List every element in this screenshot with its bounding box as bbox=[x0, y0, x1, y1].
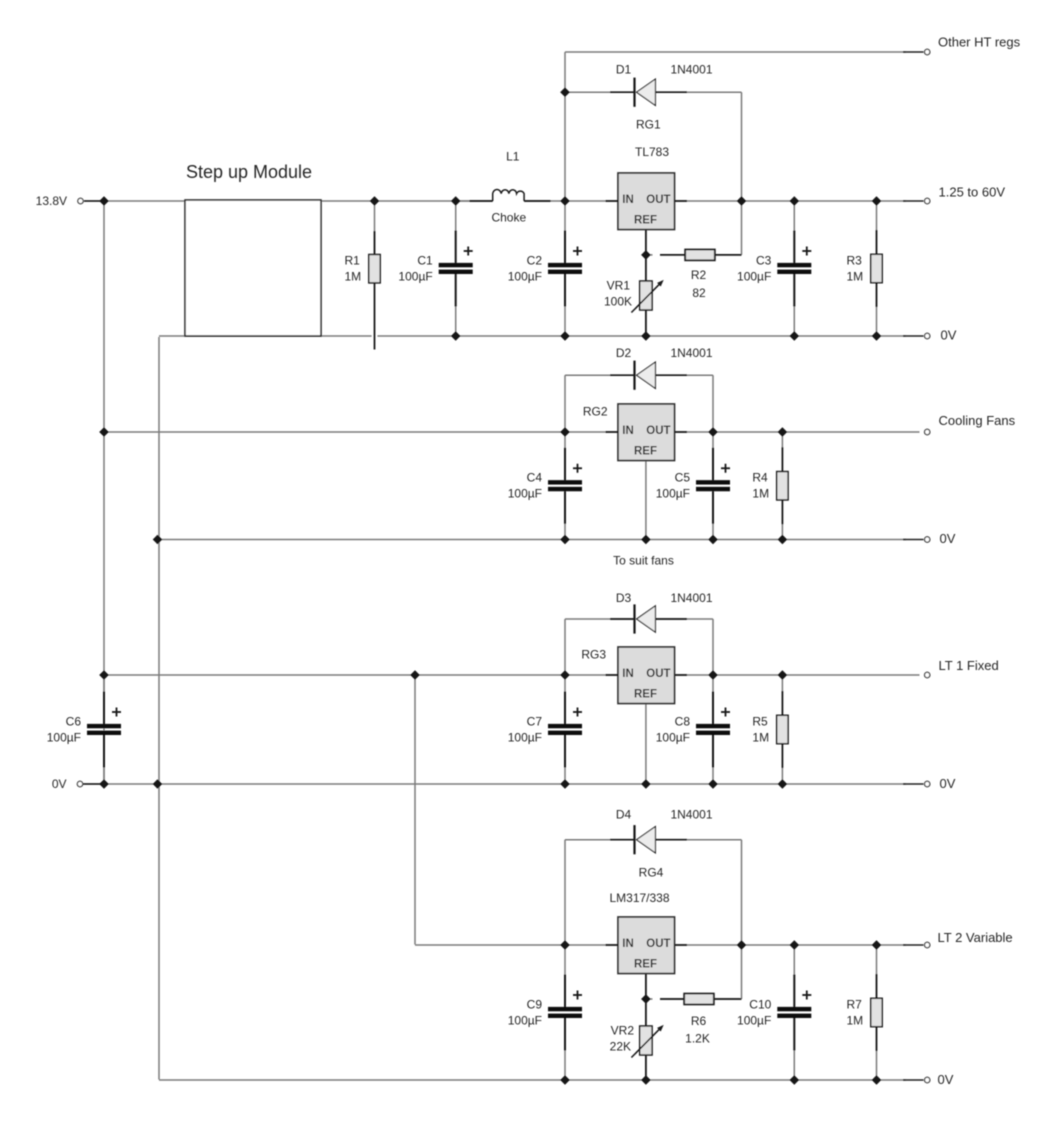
svg-text:1M: 1M bbox=[345, 270, 362, 284]
svg-text:0V: 0V bbox=[938, 1072, 954, 1087]
svg-text:100µF: 100µF bbox=[508, 269, 542, 283]
svg-text:RG3: RG3 bbox=[581, 648, 606, 662]
svg-text:C8: C8 bbox=[675, 714, 691, 728]
svg-text:100µF: 100µF bbox=[508, 487, 542, 501]
svg-text:C10: C10 bbox=[749, 997, 771, 1011]
svg-text:D4: D4 bbox=[616, 808, 632, 822]
svg-text:OUT: OUT bbox=[646, 194, 670, 206]
svg-text:100µF: 100µF bbox=[656, 487, 690, 501]
svg-text:R1: R1 bbox=[345, 254, 361, 268]
svg-text:IN: IN bbox=[622, 668, 634, 680]
svg-text:LT 2 Variable: LT 2 Variable bbox=[938, 930, 1013, 945]
svg-text:1M: 1M bbox=[752, 730, 769, 744]
svg-text:To suit fans: To suit fans bbox=[613, 554, 674, 568]
svg-text:Step up Module: Step up Module bbox=[186, 162, 312, 182]
svg-text:100µF: 100µF bbox=[398, 269, 432, 283]
svg-text:C4: C4 bbox=[527, 471, 543, 485]
svg-text:1N4001: 1N4001 bbox=[670, 808, 712, 822]
svg-text:1M: 1M bbox=[847, 1013, 864, 1027]
svg-text:0V: 0V bbox=[941, 328, 957, 343]
svg-text:100K: 100K bbox=[604, 295, 632, 309]
svg-text:82: 82 bbox=[692, 286, 706, 300]
svg-text:Other HT regs: Other HT regs bbox=[938, 35, 1021, 50]
svg-text:1N4001: 1N4001 bbox=[670, 591, 712, 605]
svg-text:22K: 22K bbox=[610, 1040, 631, 1054]
svg-text:0V: 0V bbox=[52, 777, 67, 791]
svg-text:R5: R5 bbox=[752, 714, 768, 728]
svg-text:IN: IN bbox=[622, 194, 634, 206]
svg-text:C1: C1 bbox=[417, 253, 433, 267]
svg-text:LT 1 Fixed: LT 1 Fixed bbox=[939, 658, 999, 673]
svg-text:IN: IN bbox=[622, 425, 634, 437]
svg-text:100µF: 100µF bbox=[737, 1013, 771, 1027]
svg-text:0V: 0V bbox=[940, 776, 956, 791]
svg-text:0V: 0V bbox=[940, 531, 956, 546]
svg-text:C3: C3 bbox=[756, 253, 772, 267]
svg-text:VR1: VR1 bbox=[607, 279, 631, 293]
svg-text:1.2K: 1.2K bbox=[685, 1031, 710, 1045]
svg-text:1.25 to 60V: 1.25 to 60V bbox=[939, 185, 1006, 200]
svg-text:IN: IN bbox=[622, 938, 634, 950]
svg-text:C5: C5 bbox=[675, 471, 691, 485]
svg-text:LM317/338: LM317/338 bbox=[609, 891, 669, 905]
svg-text:RG1: RG1 bbox=[636, 118, 661, 132]
svg-text:TL783: TL783 bbox=[635, 145, 669, 159]
svg-text:1M: 1M bbox=[847, 269, 864, 283]
svg-text:RG4: RG4 bbox=[639, 866, 664, 880]
svg-text:13.8V: 13.8V bbox=[36, 194, 67, 208]
svg-text:REF: REF bbox=[634, 689, 657, 701]
svg-text:D2: D2 bbox=[616, 346, 632, 360]
svg-text:R2: R2 bbox=[691, 268, 707, 282]
svg-text:100µF: 100µF bbox=[737, 269, 771, 283]
svg-text:REF: REF bbox=[634, 215, 657, 227]
svg-text:REF: REF bbox=[634, 446, 657, 458]
svg-text:RG2: RG2 bbox=[583, 404, 608, 418]
svg-text:100µF: 100µF bbox=[656, 730, 690, 744]
svg-text:C2: C2 bbox=[527, 253, 543, 267]
svg-text:REF: REF bbox=[634, 959, 657, 971]
svg-text:Cooling Fans: Cooling Fans bbox=[939, 413, 1016, 428]
svg-text:100µF: 100µF bbox=[508, 1013, 542, 1027]
svg-text:L1: L1 bbox=[506, 150, 520, 164]
svg-text:1N4001: 1N4001 bbox=[670, 62, 712, 76]
svg-text:C6: C6 bbox=[66, 714, 82, 728]
svg-text:OUT: OUT bbox=[646, 938, 670, 950]
svg-text:1M: 1M bbox=[752, 487, 769, 501]
svg-text:OUT: OUT bbox=[646, 425, 670, 437]
svg-text:R3: R3 bbox=[847, 253, 863, 267]
svg-text:100µF: 100µF bbox=[47, 730, 81, 744]
svg-text:100µF: 100µF bbox=[508, 730, 542, 744]
svg-text:R6: R6 bbox=[691, 1014, 707, 1028]
svg-text:Choke: Choke bbox=[491, 211, 526, 225]
svg-text:OUT: OUT bbox=[646, 668, 670, 680]
svg-text:C9: C9 bbox=[527, 997, 543, 1011]
svg-text:D3: D3 bbox=[616, 591, 632, 605]
svg-text:D1: D1 bbox=[616, 62, 632, 76]
svg-text:R4: R4 bbox=[752, 471, 768, 485]
svg-text:C7: C7 bbox=[527, 714, 543, 728]
svg-text:VR2: VR2 bbox=[611, 1024, 635, 1038]
svg-text:1N4001: 1N4001 bbox=[670, 346, 712, 360]
svg-text:R7: R7 bbox=[847, 997, 863, 1011]
